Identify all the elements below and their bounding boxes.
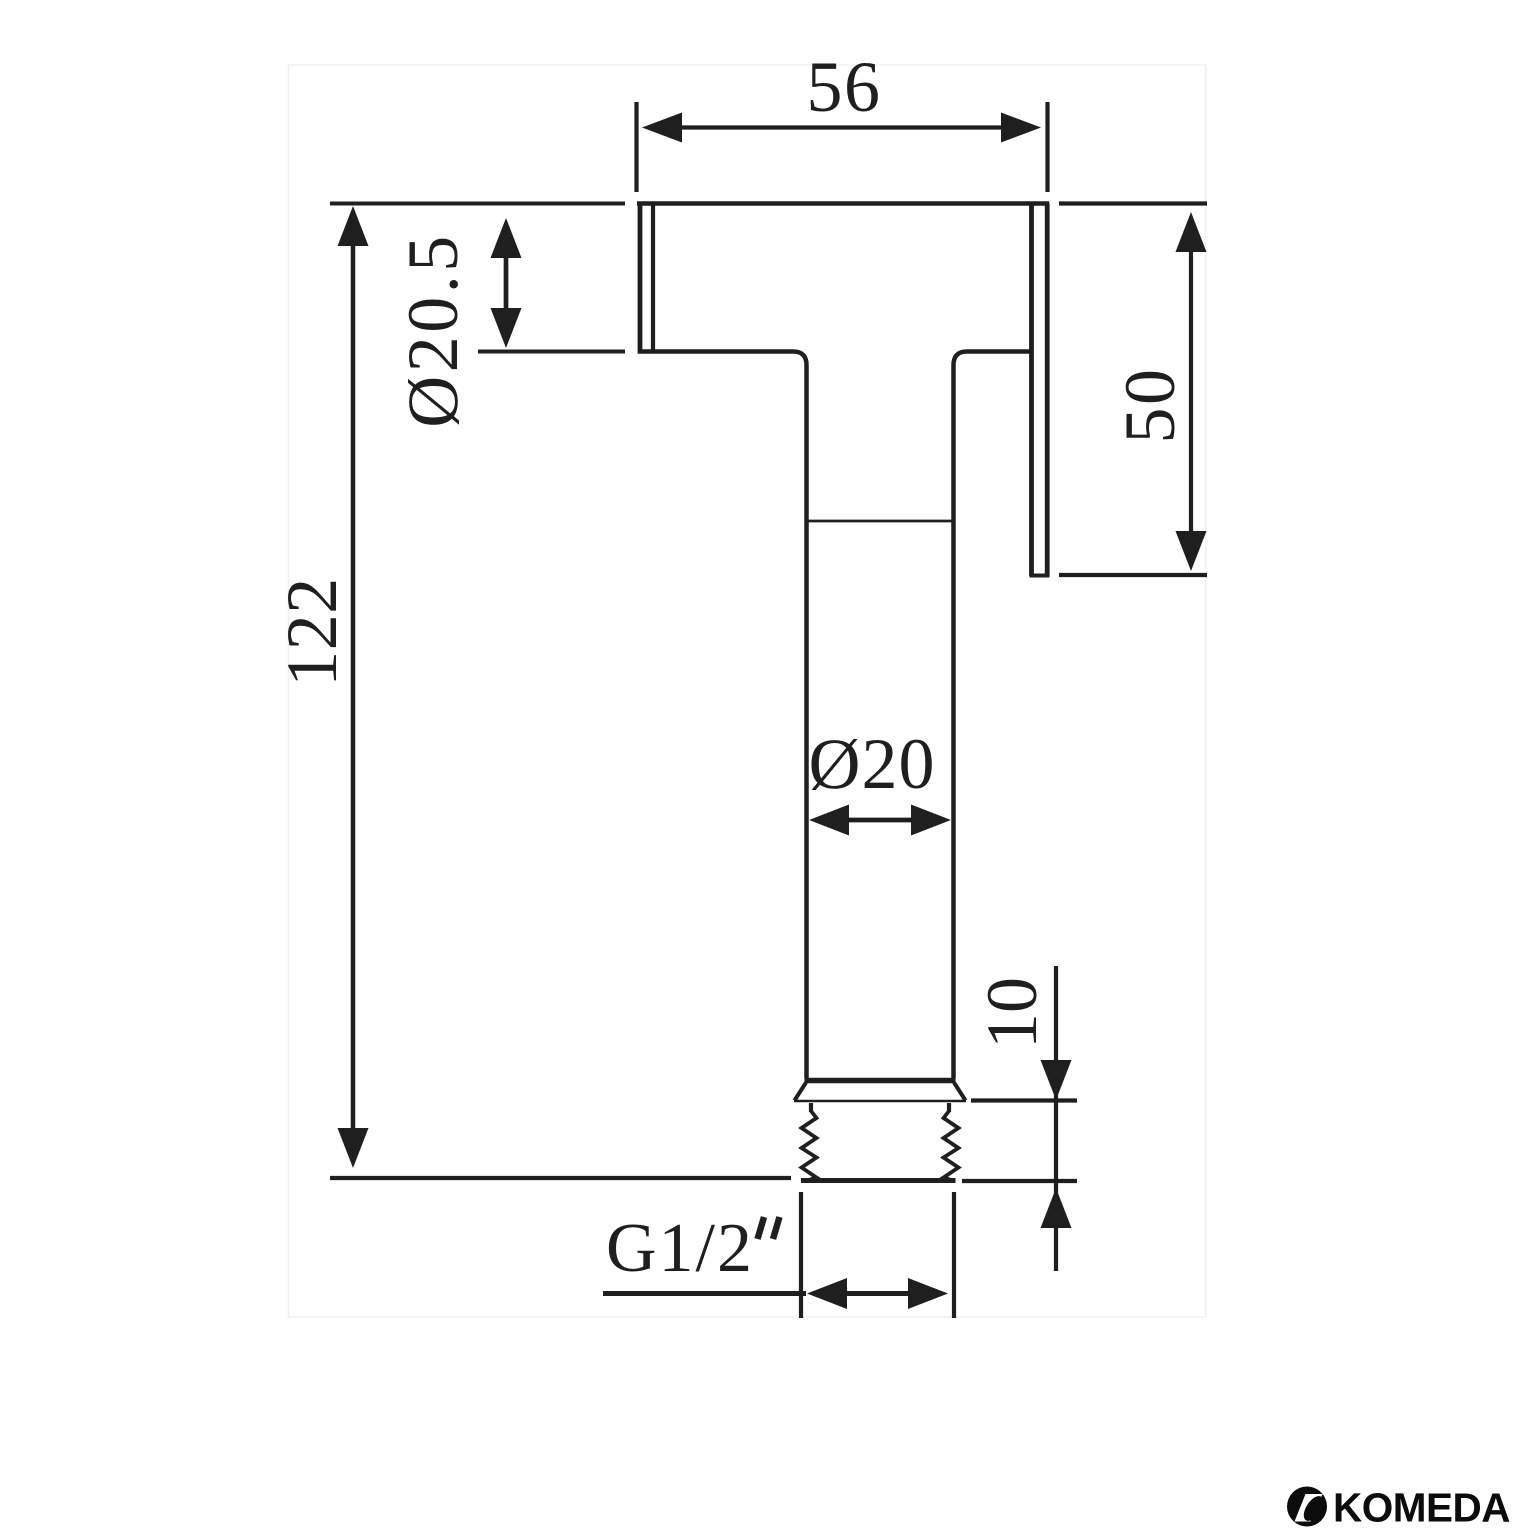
sprayer head left end cap outer line bbox=[638, 202, 643, 354]
wall flange bottom cap bbox=[1030, 574, 1050, 578]
dim 122 line bbox=[351, 230, 356, 1130]
dim G1/2 right extension line bbox=[952, 1192, 956, 1318]
dim 56 line bbox=[670, 125, 1012, 129]
dim G1/2 line bbox=[847, 1291, 908, 1296]
dim G1/2 leader line bbox=[603, 1291, 806, 1296]
dim 10 top tick bbox=[971, 1098, 1077, 1102]
dim 10 line bbox=[1054, 966, 1058, 1271]
dim G1/2 left arrowhead bbox=[807, 1278, 847, 1309]
svg-text:50: 50 bbox=[1110, 367, 1190, 444]
dim 20 left arrowhead bbox=[809, 805, 849, 836]
dim 10 down arrowhead bbox=[1041, 1060, 1072, 1100]
dim 56 right arrowhead bbox=[1001, 113, 1041, 143]
dim 20 right arrowhead bbox=[911, 805, 951, 836]
dim 20.5 up arrowhead bbox=[491, 218, 522, 258]
thread right zigzag bbox=[944, 1111, 959, 1181]
thread right stub bbox=[947, 1103, 951, 1112]
svg-text:10: 10 bbox=[972, 977, 1052, 1049]
sprayer head left end cap inner line bbox=[651, 204, 655, 352]
dim 122 top extension line bbox=[330, 202, 625, 206]
dim 56 left arrowhead bbox=[642, 113, 682, 143]
dim 122 bottom extension line bbox=[330, 1176, 791, 1180]
sprayer head bottom-left edge and handle left edge bbox=[638, 352, 807, 1079]
thread left zigzag bbox=[802, 1111, 817, 1181]
svg-text:KOMEDA: KOMEDA bbox=[1333, 1485, 1510, 1531]
sprayer head top edge bbox=[637, 201, 1049, 206]
dim 122 bottom arrowhead bbox=[338, 1128, 369, 1168]
svg-text:Ø20.5: Ø20.5 bbox=[393, 232, 473, 428]
thread bottom line bbox=[801, 1178, 956, 1183]
dim 122 top arrowhead bbox=[338, 206, 369, 246]
wall flange right line bbox=[1045, 204, 1050, 577]
dim 50 top arrowhead bbox=[1176, 212, 1207, 252]
dim G1/2 double-prime marks bbox=[758, 1217, 765, 1239]
svg-text:G1/2: G1/2 bbox=[606, 1210, 754, 1287]
image frame bbox=[289, 65, 1207, 1317]
dim 50 line bbox=[1189, 252, 1193, 531]
dim 20.5 down arrowhead bbox=[491, 308, 522, 348]
dim 10 up arrowhead bbox=[1041, 1188, 1072, 1228]
dim G1/2 left extension line bbox=[799, 1192, 803, 1318]
dim 50 bottom arrowhead bbox=[1176, 531, 1207, 571]
sprayer head bottom-right edge and handle right edge bbox=[954, 352, 1030, 1079]
svg-text:122: 122 bbox=[272, 577, 352, 687]
svg-text:56: 56 bbox=[807, 47, 882, 127]
head-handle junction line bbox=[807, 520, 954, 523]
dim 50 bottom extension line bbox=[1059, 573, 1207, 577]
svg-text:Ø20: Ø20 bbox=[809, 724, 936, 804]
flare bottom line bbox=[794, 1100, 966, 1103]
flare top line bbox=[805, 1078, 956, 1084]
flare right slant bbox=[954, 1083, 966, 1101]
dim 20 shaft bbox=[849, 818, 911, 823]
flare left slant bbox=[795, 1083, 807, 1101]
dim 10 bottom tick bbox=[962, 1179, 1077, 1183]
dim 56 right extension line bbox=[1045, 102, 1049, 192]
dim 50 top extension line bbox=[1059, 201, 1207, 205]
dim 20.5 bottom extension line bbox=[478, 350, 625, 354]
dim 20.5 shaft bbox=[504, 258, 509, 308]
dim G1/2 right arrowhead bbox=[908, 1278, 948, 1309]
thread left stub bbox=[809, 1103, 813, 1112]
dim 56 left extension line bbox=[634, 102, 638, 192]
wall flange left line bbox=[1029, 204, 1034, 577]
